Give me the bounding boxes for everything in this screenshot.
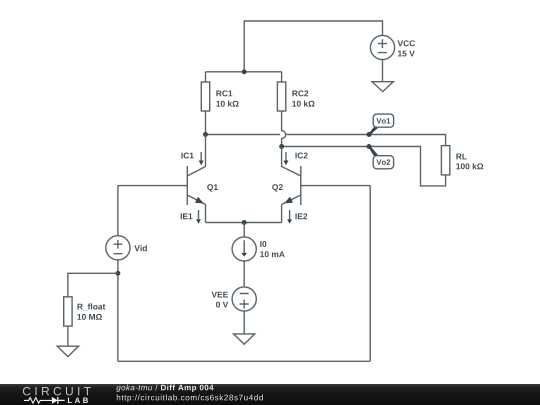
label Q1 — [207, 184, 218, 192]
current arrow IC1 — [199, 152, 204, 165]
junction dot — [203, 132, 208, 137]
junction dot — [279, 144, 284, 149]
wire Vo2 rail — [282, 147, 446, 186]
flag Vo1 — [367, 114, 394, 137]
ground (R_float) — [57, 346, 78, 356]
wire VEE to ground — [243, 311, 245, 334]
footer title text — [116, 385, 213, 392]
transistor Q2 — [282, 147, 301, 223]
logo CIRCUIT text — [23, 387, 91, 396]
wire emitter rail — [206, 222, 282, 224]
voltage source VEE — [232, 287, 256, 311]
label RC2 value — [292, 90, 314, 106]
flag Vo2 — [367, 144, 394, 169]
label VCC value — [398, 40, 415, 56]
label IC2 — [295, 153, 307, 159]
label RL value — [456, 154, 483, 170]
junction dot — [242, 69, 247, 74]
logo resistor zigzag — [24, 398, 52, 404]
wire Q2 base — [301, 185, 370, 187]
label RC1 value — [216, 90, 238, 106]
resistor RC2 — [277, 72, 285, 147]
footer url text — [117, 394, 263, 402]
label IC1 — [181, 153, 193, 159]
label Q2 — [272, 184, 283, 192]
wire to R_float — [68, 273, 118, 297]
ground (VEE) — [234, 334, 255, 344]
footer bar — [0, 384, 540, 405]
transistor Q1 — [187, 135, 205, 223]
wire Vo1 rail — [206, 135, 446, 146]
label IE2 — [295, 213, 307, 219]
current arrow IE1 — [196, 210, 201, 224]
junction dot — [115, 271, 120, 276]
wire R_float to ground — [67, 326, 69, 346]
label VEE value — [212, 292, 229, 308]
wire Q2 base to bottom rail — [369, 186, 371, 362]
junction dot — [242, 220, 247, 225]
logo diode — [52, 397, 65, 404]
label Vid — [134, 245, 146, 251]
logo LAB text — [68, 398, 88, 403]
wire Vid to Q1 base — [117, 186, 119, 236]
resistor RL — [441, 146, 449, 175]
resistor RC1 — [201, 72, 209, 135]
wire collector rail RC1-RC2 — [206, 71, 282, 73]
current source I0 — [232, 237, 256, 261]
wire Vid to bottom rail — [117, 260, 119, 361]
resistor R_float — [64, 297, 72, 326]
current arrow IC2 — [284, 152, 289, 165]
label I0 value — [260, 241, 284, 257]
wire VCC to ground — [382, 60, 384, 82]
wire bottom rail — [118, 360, 370, 362]
voltage source VCC — [370, 35, 394, 59]
wire emitter rail to I0 — [243, 223, 245, 238]
ground (VCC) — [372, 82, 393, 92]
wire VCC top rail — [244, 21, 382, 72]
wire Q1 base — [118, 185, 187, 187]
label R_float value — [77, 303, 105, 319]
voltage source Vid — [106, 236, 130, 260]
current arrow IE2 — [287, 210, 292, 224]
label IE1 — [181, 213, 193, 219]
wire I0 to VEE — [243, 261, 245, 287]
